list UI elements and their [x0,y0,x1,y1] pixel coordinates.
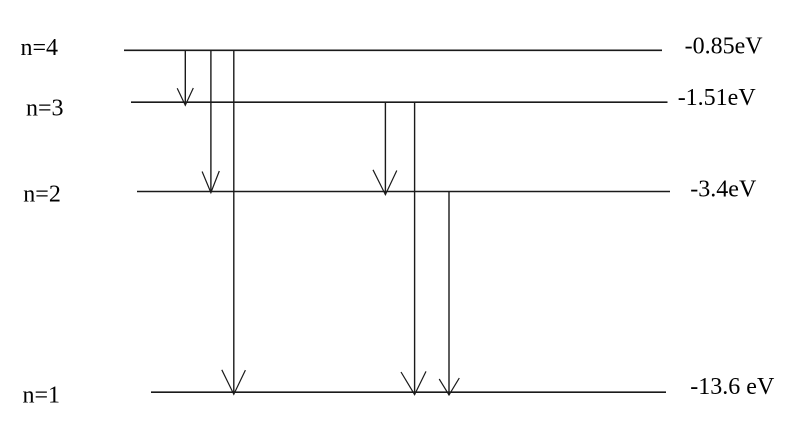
svg-text:n=4: n=4 [21,35,59,61]
svg-text:n=1: n=1 [23,383,61,409]
transition arrow n=3 to n=1 [401,102,426,394]
transition arrow n=4 to n=3 [177,50,193,105]
transition arrow n=4 to n=2 [202,50,219,192]
label n=3 [26,96,64,122]
energy level line n=3 [131,101,668,103]
transition arrow n=3 to n=2 [373,102,397,194]
energy level line n=4 [124,49,662,51]
svg-text:-13.6 eV: -13.6 eV [690,374,775,400]
label -13.6 eV [690,374,775,400]
label n=2 [23,182,61,208]
label n=4 [21,35,59,61]
label -0.85eV [685,34,764,60]
transition arrow n=4 to n=1 [222,50,246,394]
svg-text:-0.85eV: -0.85eV [685,34,764,60]
svg-text:n=2: n=2 [23,182,61,208]
label n=1 [23,383,61,409]
transition arrow n=2 to n=1 [439,192,459,396]
svg-text:-1.51eV: -1.51eV [678,85,757,111]
svg-text:-3.4eV: -3.4eV [690,177,757,203]
energy level line n=2 [137,191,670,193]
label -1.51eV [678,85,757,111]
svg-text:n=3: n=3 [26,96,64,122]
label -3.4eV [690,177,757,203]
energy level line n=1 [151,391,666,393]
